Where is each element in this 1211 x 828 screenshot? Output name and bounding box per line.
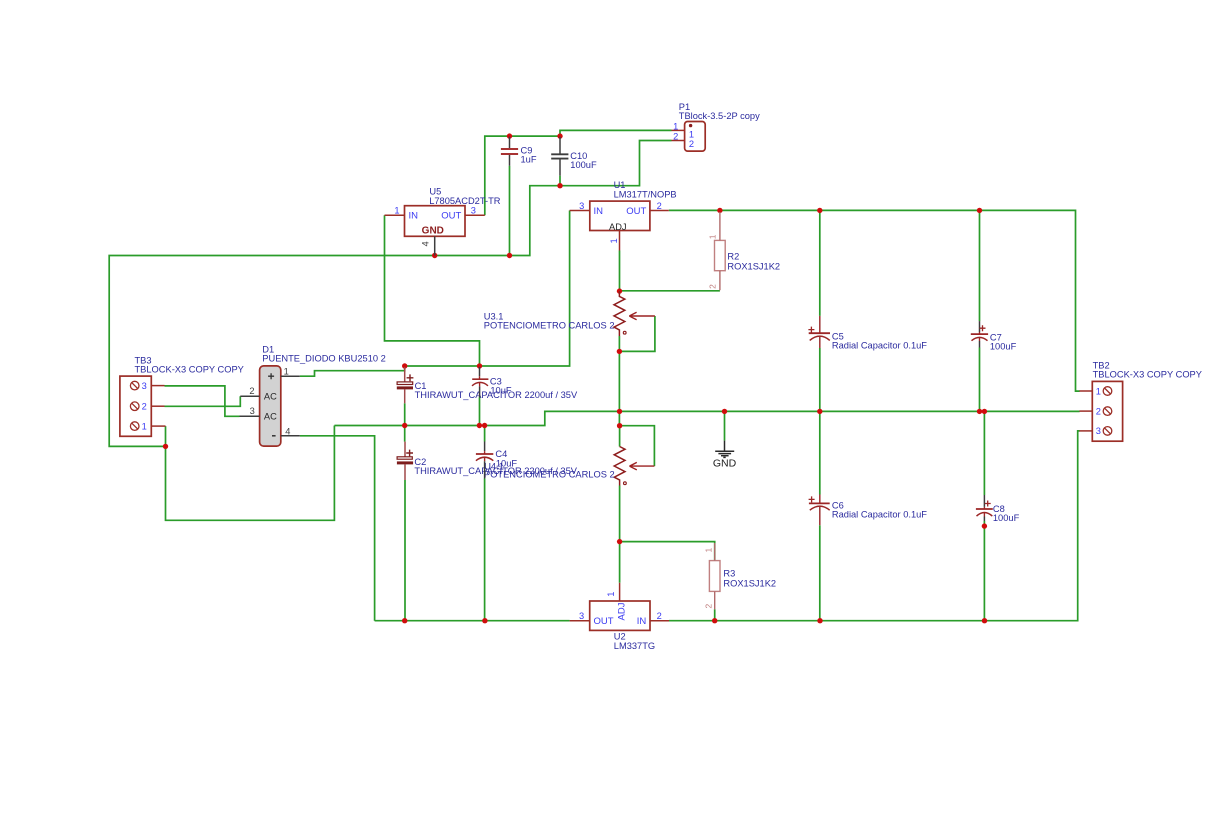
C10 bottom lead xyxy=(559,160,561,176)
C8 mid red lead xyxy=(983,513,985,517)
pot U4.1 terminal circle xyxy=(624,482,627,485)
R2 pin 1 lead xyxy=(719,212,721,240)
C5 flat plate xyxy=(809,332,830,334)
junction GND symbol mid rail xyxy=(722,409,727,414)
pot U3.1 wiper arrow xyxy=(629,312,655,319)
TB3 screw circle pin2 xyxy=(130,402,139,411)
TB3 pin 2 stub xyxy=(151,405,164,407)
C7 plus mark xyxy=(980,325,986,331)
C4 bottom lead xyxy=(484,461,486,478)
junction C10 bottom xyxy=(557,183,562,188)
C5 bottom lead xyxy=(819,336,821,348)
wire D1 minus down to bottom rail xyxy=(300,436,375,621)
ground bar 2 xyxy=(718,453,731,455)
D1 minus mark xyxy=(272,435,276,437)
wire pot2 top loop to pot2 wiper xyxy=(620,426,655,466)
wire TB3 pin1 down and over to GND mid rail xyxy=(166,426,335,521)
bridge D1 body xyxy=(260,366,281,446)
C8 flat plate xyxy=(976,508,993,510)
junction R3 bottom rail xyxy=(712,618,717,623)
C8 bottom lead xyxy=(983,517,985,522)
svg-text:3: 3 xyxy=(579,201,584,211)
svg-text:100uF: 100uF xyxy=(990,342,1017,352)
junction C1 bottom mid rail xyxy=(402,423,407,428)
junction C5 top rail xyxy=(817,208,822,213)
regulator U2 body xyxy=(590,601,650,630)
svg-text:2: 2 xyxy=(1096,406,1101,416)
C5 plus mark xyxy=(808,327,814,333)
wire C7 column xyxy=(979,210,981,411)
junction C2 bottom rail xyxy=(402,618,407,623)
R2 pin 2 lead xyxy=(719,271,721,291)
TB2 pin 2 stub xyxy=(1079,410,1092,412)
svg-text:1: 1 xyxy=(609,238,619,243)
C10 plates xyxy=(551,154,568,158)
svg-text:AC: AC xyxy=(264,411,277,421)
D1 pin 2 stub xyxy=(240,395,259,397)
C3 top lead xyxy=(479,367,481,376)
C2 hollow plate xyxy=(397,457,412,459)
U5 pin 1 IN stub xyxy=(385,214,405,216)
svg-text:R3: R3 xyxy=(723,568,735,578)
TB2 pin 1 stub xyxy=(1079,390,1092,392)
svg-text:1: 1 xyxy=(606,592,616,597)
wire C6 column xyxy=(819,411,821,620)
svg-text:2: 2 xyxy=(249,386,254,396)
svg-text:1: 1 xyxy=(703,548,713,553)
svg-text:OUT: OUT xyxy=(441,211,461,222)
svg-text:1: 1 xyxy=(1096,386,1101,396)
svg-text:ROX1SJ1K2: ROX1SJ1K2 xyxy=(727,262,780,272)
wire U1 ADJ node to R2 pin2 xyxy=(620,251,720,292)
junction C9 top xyxy=(507,133,512,138)
svg-text:Radial Capacitor 0.1uF: Radial Capacitor 0.1uF xyxy=(832,340,927,350)
wire GND symbol stem xyxy=(724,411,726,440)
wire V- bottom rail right (U2 IN to TB2 pin3) xyxy=(669,431,1080,621)
C5 top lead xyxy=(819,316,821,333)
C6 plus mark xyxy=(809,496,815,502)
svg-text:1uF: 1uF xyxy=(521,155,537,165)
svg-text:ADJ: ADJ xyxy=(616,602,627,620)
svg-text:TBlock-3.5-2P copy: TBlock-3.5-2P copy xyxy=(679,111,760,121)
regulator U5 body xyxy=(405,206,466,237)
wire pot1 bottom down through mid rail to pot2 top xyxy=(618,336,620,426)
C8 top lead red tip xyxy=(983,507,985,509)
wire pot2 top to zigzag xyxy=(619,426,621,447)
connector P1 body xyxy=(685,122,706,152)
svg-text:IN: IN xyxy=(409,211,419,222)
regulator U1 body xyxy=(590,201,650,230)
svg-text:4: 4 xyxy=(285,426,290,436)
svg-text:GND: GND xyxy=(713,457,737,469)
U2 pin 3 OUT stub xyxy=(570,620,590,622)
R3 pin 2 lead xyxy=(714,591,716,609)
wire U5 OUT up to C9 C10 P1 pin1 xyxy=(485,130,672,215)
wire GND mid rail from TB3 pin1 loop to TB2 pin2 xyxy=(334,411,1079,425)
svg-text:IN: IN xyxy=(637,616,647,627)
pot U4.1 zigzag element xyxy=(614,447,625,486)
wire TB3 pin2 to D1 AC pin2 xyxy=(165,396,241,406)
svg-text:2: 2 xyxy=(708,284,718,289)
R3 pin 1 lead xyxy=(714,543,716,561)
svg-text:PUENTE_DIODO KBU2510 2: PUENTE_DIODO KBU2510 2 xyxy=(262,354,386,364)
svg-text:1: 1 xyxy=(142,421,147,431)
junction U5 pin4 ground xyxy=(432,253,437,258)
C7 top lead red tip xyxy=(979,332,981,334)
wire TB3 pin3 to D1 AC pin3 xyxy=(165,386,240,416)
svg-text:C4: C4 xyxy=(495,449,507,459)
TB3 screw circle pin3 xyxy=(130,381,139,390)
junction C7 bottom mid rail xyxy=(977,409,982,414)
svg-text:POTENCIOMETRO CARLOS 2: POTENCIOMETRO CARLOS 2 xyxy=(484,321,615,331)
TB2 screw circle pin1 xyxy=(1103,387,1112,396)
svg-text:Radial Capacitor 0.1uF: Radial Capacitor 0.1uF xyxy=(832,510,927,520)
svg-text:L7805ACD2T-TR: L7805ACD2T-TR xyxy=(429,196,501,206)
svg-text:ROX1SJ1K2: ROX1SJ1K2 xyxy=(723,578,776,588)
TB2 pin 3 stub xyxy=(1079,430,1092,432)
svg-text:3: 3 xyxy=(579,611,584,621)
junction C8 lead xyxy=(982,523,987,528)
C1 solid plate xyxy=(397,386,413,389)
junction C8 top mid rail xyxy=(982,409,987,414)
C8 arc plate xyxy=(977,513,993,517)
svg-text:3: 3 xyxy=(250,406,255,416)
svg-text:3: 3 xyxy=(1096,426,1101,436)
svg-text:1: 1 xyxy=(284,366,289,376)
C1 hollow plate xyxy=(397,382,413,385)
wire P1 pin2 ground return to U5 pin4 rail and TB3 pin1 junction xyxy=(109,141,671,447)
C6 flat plate xyxy=(809,502,830,504)
TB3 screw circle pin1 xyxy=(130,422,139,431)
wire C5 column xyxy=(819,210,821,411)
D1 pin 4 stub xyxy=(281,435,300,437)
resistor R2 body xyxy=(715,240,726,270)
junction C3 top xyxy=(477,363,482,368)
wire rectified + rail C1 to C3 to U1 IN xyxy=(405,211,570,367)
C3 arc plate xyxy=(472,382,488,385)
wire D1 plus to C1 top node xyxy=(300,366,405,376)
junction C7 top rail xyxy=(977,208,982,213)
C1 top lead xyxy=(404,367,406,382)
C3 top lead red tip xyxy=(479,376,481,379)
pot U3.1 zigzag element xyxy=(614,291,625,336)
svg-text:1: 1 xyxy=(394,206,399,216)
C2 solid plate xyxy=(397,461,413,464)
svg-text:OUT: OUT xyxy=(626,206,646,217)
ground bar 3 xyxy=(721,455,729,457)
svg-text:TBLOCK-X3 COPY COPY: TBLOCK-X3 COPY COPY xyxy=(1093,370,1202,380)
C7 mid red lead xyxy=(979,337,981,341)
C4 arc plate xyxy=(476,457,493,461)
C7 bottom lead xyxy=(979,341,981,348)
junction U1 OUT R2 xyxy=(717,208,722,213)
wire C8 column xyxy=(983,411,985,620)
C6 bottom lead xyxy=(819,506,821,525)
wire pot1 wiper loop to pot1 bottom xyxy=(619,316,655,351)
svg-text:2: 2 xyxy=(657,611,662,621)
TB3 pin 3 stub xyxy=(151,385,164,387)
C7 top lead xyxy=(979,321,981,332)
C2 top lead xyxy=(404,442,406,457)
C9 top lead xyxy=(509,137,511,148)
svg-text:GND: GND xyxy=(422,226,444,237)
junction C4 bottom rail xyxy=(482,618,487,623)
svg-text:AC: AC xyxy=(264,391,277,401)
ground bar 4 xyxy=(723,456,725,458)
svg-text:R2: R2 xyxy=(727,252,739,262)
C1 bottom lead xyxy=(404,389,406,403)
svg-text:2: 2 xyxy=(689,139,694,149)
wire C2 column xyxy=(404,426,406,621)
junction C4 top mid rail xyxy=(482,423,487,428)
C5 arc plate xyxy=(810,336,830,340)
C8 plus mark xyxy=(985,501,991,507)
C8 top lead xyxy=(983,495,985,507)
D1 plus mark xyxy=(268,373,274,379)
svg-text:10uF: 10uF xyxy=(490,385,512,395)
C7 arc plate xyxy=(972,337,988,340)
U1 pin 3 IN stub xyxy=(570,210,590,212)
U5 pin 3 OUT stub xyxy=(465,214,485,216)
svg-text:LM317T/NOPB: LM317T/NOPB xyxy=(614,189,677,199)
wire R3 pin2 to bottom rail xyxy=(714,609,716,620)
C3 mid red lead xyxy=(479,383,481,387)
wire V- bottom rail left (D1 minus to U2 OUT) xyxy=(375,620,570,622)
C2 bottom lead xyxy=(404,464,406,480)
junction C3 bottom mid rail xyxy=(477,423,482,428)
D1 pin 3 stub xyxy=(240,415,260,417)
svg-text:100uF: 100uF xyxy=(993,513,1020,523)
C3 flat plate xyxy=(472,378,488,380)
junction C5 bottom mid rail xyxy=(817,409,822,414)
junction U2 ADJ R3 node xyxy=(617,539,622,544)
C4 flat plate xyxy=(476,453,493,455)
C7 flat plate xyxy=(971,333,988,335)
svg-text:2: 2 xyxy=(703,604,713,609)
TB3 pin 1 stub xyxy=(151,425,165,427)
junction TB3 pin1 node xyxy=(163,444,168,449)
ground stem xyxy=(724,441,726,452)
resistor R3 body xyxy=(709,561,720,592)
wire C10 bottom to ground rail xyxy=(559,176,561,186)
wire C3 bottom to mid rail xyxy=(479,398,481,426)
C9 bottom lead xyxy=(509,155,511,166)
C6 top lead xyxy=(819,495,821,504)
svg-text:3: 3 xyxy=(471,206,476,216)
svg-text:1: 1 xyxy=(708,234,718,239)
C3 bottom lead xyxy=(479,386,481,397)
wire C4 column xyxy=(484,426,486,621)
C4 top lead xyxy=(484,442,486,452)
P1 pin 2 stub xyxy=(672,140,685,142)
wire U5 IN loop down to C3 node xyxy=(385,215,480,366)
svg-text:2: 2 xyxy=(673,132,678,142)
U2 pin 2 IN stub xyxy=(650,620,669,622)
svg-text:100uF: 100uF xyxy=(570,160,597,170)
C4 mid red lead xyxy=(484,457,486,461)
U1 pin 1 ADJ stub xyxy=(619,231,621,251)
svg-text:3: 3 xyxy=(142,381,147,391)
P1 polarity dot xyxy=(689,124,692,127)
C6 arc plate xyxy=(810,506,830,510)
junction C9 bottom ground xyxy=(507,253,512,258)
svg-text:ADJ: ADJ xyxy=(609,222,627,232)
U2 pin 1 ADJ stub xyxy=(619,583,621,601)
pot U4.1 wiper arrow xyxy=(630,462,655,470)
U1 pin 2 OUT stub xyxy=(650,210,669,212)
svg-text:TBLOCK-X3 COPY COPY: TBLOCK-X3 COPY COPY xyxy=(135,365,244,375)
junction C1 top xyxy=(402,363,407,368)
svg-text:2: 2 xyxy=(657,201,662,211)
svg-text:1: 1 xyxy=(673,122,678,132)
ground bar 1 xyxy=(715,450,734,452)
junction pot2 top wiper xyxy=(617,423,622,428)
svg-text:LM337TG: LM337TG xyxy=(614,641,655,651)
junction C8 bottom rail xyxy=(982,618,987,623)
wire C9 bottom to ground rail xyxy=(509,166,511,256)
D1 pin 1 stub xyxy=(281,375,300,377)
P1 pin 1 stub xyxy=(672,129,685,131)
connector TB2 body xyxy=(1092,381,1122,441)
junction C10 top xyxy=(557,133,562,138)
C4 top lead red tip xyxy=(484,451,486,454)
wire R3 node to R3 pin1 and U2 ADJ xyxy=(620,542,715,583)
junction pot column mid rail xyxy=(617,409,622,414)
C9 plates xyxy=(501,149,518,154)
TB2 screw circle pin2 xyxy=(1103,407,1112,416)
junction pot1 bottom wiper xyxy=(617,349,622,354)
junction C6 bottom rail xyxy=(817,618,822,623)
C2 plus mark xyxy=(406,450,413,457)
C1 plus mark xyxy=(407,374,414,381)
U5 pin 4 GND stub xyxy=(434,236,436,255)
svg-text:4: 4 xyxy=(421,241,431,246)
wire V+ top rail from U1 OUT to TB2 pin1 xyxy=(669,210,1080,391)
wire C1 bottom to mid rail xyxy=(404,403,406,425)
junction U1 ADJ node xyxy=(617,288,622,293)
svg-text:10uF: 10uF xyxy=(496,459,518,469)
svg-text:2: 2 xyxy=(142,401,147,411)
C10 top lead xyxy=(559,137,561,154)
wire pot2 bottom down to R3 node xyxy=(619,486,621,542)
pot U3.1 terminal circle xyxy=(623,331,626,334)
TB2 screw circle pin3 xyxy=(1103,427,1112,436)
svg-text:OUT: OUT xyxy=(594,616,614,627)
connector TB3 body xyxy=(120,376,151,436)
svg-text:IN: IN xyxy=(594,206,604,217)
